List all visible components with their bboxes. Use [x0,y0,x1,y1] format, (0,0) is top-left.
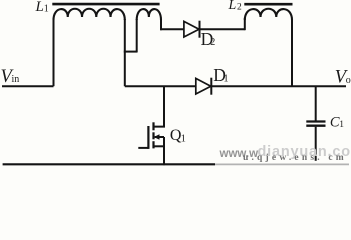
svg-text:2: 2 [210,37,215,48]
diode D1 cathode bar [210,78,212,95]
wire Q1 source lead [154,145,165,147]
wire L2 right lead down to rail [291,19,293,86]
wire tap junction horizontal [124,51,137,53]
wire C1 bottom lead [315,127,317,161]
transistor Q1 channel segment bottom [152,141,154,148]
inductor L1 winding 2 (2 turns) [137,9,161,20]
wire D2 cathode to L2 [200,28,245,30]
svg-text:1: 1 [181,134,186,145]
inductor L2 winding (3 turns) [245,9,292,20]
inductor L1 core bar [52,3,159,6]
diode D2 triangle [184,21,199,37]
inductor L2 core bar [244,3,292,6]
wire L1 winding 2 right lead [160,19,162,30]
svg-text:L: L [35,0,44,15]
wire Q1 gate lead [138,147,148,149]
wire ground return rail solid part [3,163,215,165]
svg-text:1: 1 [44,4,49,15]
transistor Q1 gate bar [147,126,149,149]
svg-text:2: 2 [237,3,242,13]
svg-text:u.qjew.ens. cm: u.qjew.ens. cm [243,153,347,163]
wire L1 primary left lead [53,18,55,86]
svg-text:1: 1 [339,120,344,130]
wire L1 winding 2 left lead [136,19,138,52]
diode D1 triangle [196,78,211,94]
wire output rail right segment [211,85,346,87]
wire Vin lead [2,85,54,87]
wire L2 left lead [244,18,246,30]
svg-text:1: 1 [223,73,228,84]
transistor Q1 channel segment top [152,122,154,130]
inductor L1 winding 1 (5 turns) [54,9,125,20]
wire output rail left segment [125,85,196,87]
wire Q1 source down to ground rail [163,137,165,165]
wire to diode D2 anode [160,28,184,30]
diode D2 cathode bar [199,21,201,38]
transistor Q1 channel segment middle [152,132,154,139]
wire C1 top lead [315,86,317,120]
transistor Q1 body arrow line [155,136,164,138]
wire ground return rail faint right part [215,163,349,165]
svg-text:L: L [228,0,237,13]
wire L1 tap lead down to rail [124,19,126,86]
wire Q1 drain lead [154,86,165,126]
svg-text:o: o [346,75,351,86]
capacitor C1 bottom plate [306,125,325,127]
transistor Q1 body arrow head [154,134,160,139]
svg-text:in: in [12,74,20,85]
capacitor C1 top plate [306,120,325,122]
